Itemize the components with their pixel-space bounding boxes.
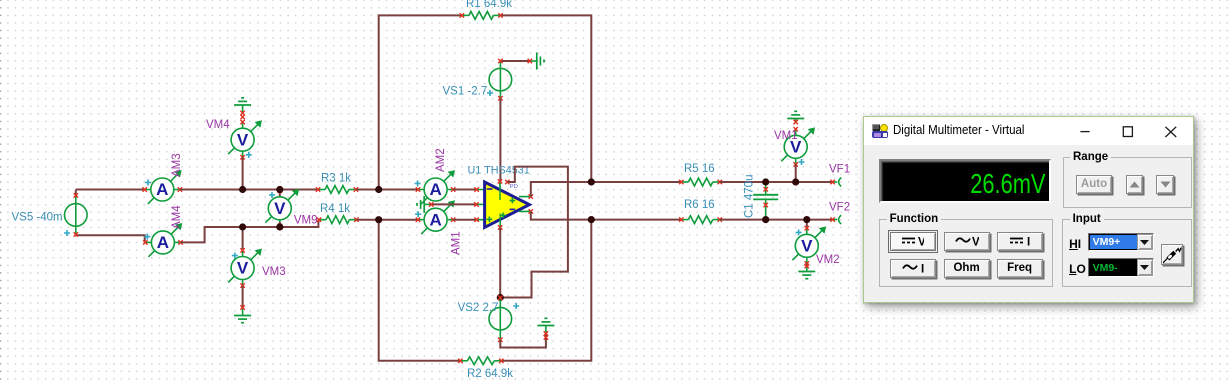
junction R1 loop / upper rail (375, 186, 382, 193)
voltmeter VM3 (228, 248, 262, 288)
svg-text:V: V (237, 259, 249, 278)
label R3 1k (321, 173, 351, 185)
resistor R6 (679, 216, 722, 224)
svg-text:V: V (801, 236, 813, 255)
wire VM9 bottom to lower rail (279, 222, 281, 227)
ground below VM3 (234, 305, 251, 322)
Function group (879, 219, 1053, 287)
junction VM9 top (276, 186, 283, 193)
ammeter AM1 (415, 200, 455, 234)
junction VS2 top node (497, 294, 504, 301)
label AM4 (171, 205, 183, 229)
resistor R2 (458, 357, 503, 365)
svg-text:PD: PD (510, 184, 518, 190)
wire AM3 to R3 upper rail (180, 189, 318, 191)
svg-text:VM9: VM9 (294, 215, 318, 227)
label VF2 (829, 202, 850, 214)
junction VM9 bottom (276, 223, 283, 230)
svg-text:VF1: VF1 (829, 164, 850, 176)
svg-text:R4 1k: R4 1k (320, 203, 350, 215)
svg-text:AM1: AM1 (451, 231, 463, 255)
label R5 16 (684, 163, 715, 175)
output pin VF1 (830, 178, 841, 187)
wire R4 to AM1 (356, 219, 418, 221)
junction VM2 (803, 216, 810, 223)
wire R5 to VF1 (720, 181, 833, 183)
wire top-loop right (R1 to out+) (501, 15, 592, 182)
svg-text:VS5 -40m: VS5 -40m (12, 212, 63, 224)
svg-text:VF2: VF2 (829, 202, 850, 214)
voltmeter VM4 (228, 120, 262, 160)
titlebar buttons (1067, 117, 1177, 145)
svg-text:R2 64.9k: R2 64.9k (467, 368, 513, 380)
label VS1 -2.7 (443, 86, 488, 98)
wire op-amp V- to VS2 (499, 228, 501, 298)
svg-text:A: A (156, 180, 168, 199)
voltmeter VM2 (792, 226, 826, 266)
svg-text:VM2: VM2 (816, 254, 840, 266)
label R1 64.9k (466, 0, 512, 10)
svg-text:V: V (972, 237, 979, 248)
wire VS1 to ground (500, 60, 529, 62)
pin label PD (510, 184, 518, 190)
junction VM3 top (239, 223, 246, 230)
wire VS5 top stub (75, 190, 77, 196)
plus marker VS5 (64, 230, 70, 236)
wire bottom-loop right (R2 to out-) (501, 220, 591, 361)
op-amp U1 THS4531 (474, 179, 533, 230)
svg-text:V: V (237, 130, 249, 149)
svg-text:V: V (274, 199, 286, 218)
ground above VM4 (234, 98, 251, 119)
wire PD pin to VS2 node (500, 167, 568, 298)
wire VM4 to upper rail (242, 157, 244, 189)
wire VS2 to ground (500, 334, 546, 348)
label C1 470u (744, 175, 756, 218)
label AM3 (171, 153, 183, 177)
junction VM4/upper rail (239, 186, 246, 193)
wire out- to R6 (531, 211, 682, 219)
wire VOCM to ground (431, 203, 476, 205)
resistor R1 (460, 11, 503, 19)
voltage source VS2 (489, 296, 512, 342)
label R6 16 (684, 199, 715, 211)
junction out+ / R1 loop (588, 178, 595, 185)
ground above VM1 (787, 111, 804, 124)
svg-text:R6 16: R6 16 (684, 199, 715, 211)
wire VM9 top to upper rail (279, 190, 281, 197)
label AM1 (451, 231, 463, 255)
svg-text:VM1: VM1 (774, 130, 798, 142)
svg-text:A: A (157, 233, 169, 252)
Digital Multimeter window (863, 116, 1194, 303)
ammeter AM2 (415, 170, 456, 204)
ground VOCM (left of op-amp) (417, 196, 433, 213)
wire R6 to VF2 (720, 219, 833, 221)
svg-text:VM3: VM3 (262, 266, 286, 278)
svg-text:VM4: VM4 (206, 119, 230, 131)
Range group (1063, 157, 1192, 208)
svg-text:A: A (429, 210, 441, 229)
wire top-loop left (R1 feedback) (379, 15, 462, 189)
svg-text:AM4: AM4 (171, 205, 183, 229)
wire out+ to R5 (531, 182, 682, 197)
label R4 1k (320, 203, 350, 215)
svg-text:R3 1k: R3 1k (321, 173, 351, 185)
junction C1 top (762, 178, 769, 185)
label VM3 (262, 266, 286, 278)
svg-text:VS1 -2.7: VS1 -2.7 (443, 86, 488, 98)
label VM4 (206, 119, 230, 131)
label VM9 (294, 215, 318, 227)
svg-text:A: A (429, 180, 441, 199)
window icon (872, 124, 888, 138)
junction out- / R2 loop (588, 216, 595, 223)
wire VM2 to ground (806, 263, 808, 266)
svg-text:VS2 2.7: VS2 2.7 (458, 302, 499, 314)
svg-text:V: V (918, 237, 924, 248)
svg-text:I: I (921, 264, 924, 275)
output pin VF2 (830, 215, 841, 224)
ground below VM2 (798, 264, 815, 279)
voltage source VS5 (65, 193, 88, 236)
junction C1 bottom (762, 216, 769, 223)
svg-text:R5 16: R5 16 (684, 163, 715, 175)
svg-text:I: I (1027, 237, 1030, 248)
label VM2 (816, 254, 840, 266)
junction R2 loop / lower rail (375, 216, 382, 223)
ammeter AM4 (143, 223, 183, 257)
wire R3 to AM2 (356, 189, 418, 191)
wire AM1 to op-amp IN+ (453, 219, 476, 221)
resistor R4 (317, 216, 359, 224)
ammeter AM3 (143, 170, 183, 204)
voltmeter VM1 (781, 127, 815, 167)
capacitor C1 470u (753, 182, 778, 218)
resistor R5 (679, 178, 722, 186)
LCD display (879, 159, 1051, 203)
wire VS5 to AM4 (76, 235, 145, 243)
label U1 THS4531 (468, 165, 530, 177)
svg-text:AM3: AM3 (171, 153, 183, 177)
wire VS5 to AM3 (76, 189, 145, 191)
junction VM1 (792, 178, 799, 185)
ground right of VS2 (537, 318, 554, 339)
svg-text:AM2: AM2 (435, 148, 447, 172)
wire VM3 to ground (242, 286, 244, 308)
voltmeter VM9 (265, 189, 299, 229)
wire lower rail to VM3 (242, 227, 244, 249)
wire VS1 to op-amp V+ pin (499, 98, 501, 181)
svg-text:R1 64.9k: R1 64.9k (466, 0, 512, 10)
voltage source VS1 (489, 59, 512, 101)
plus marker VS2 (513, 303, 519, 309)
probe button (1161, 244, 1183, 265)
label R2 64.9k (467, 368, 513, 380)
wire VM1 to out+ rail (795, 164, 797, 182)
wire bottom-loop left (R2 feedback) (379, 220, 461, 361)
plus marker VS1 (487, 90, 493, 96)
wire out- rail to VM2 (806, 220, 808, 229)
label VS5 -40m (12, 212, 63, 224)
svg-text:C1 470u: C1 470u (744, 175, 756, 218)
label VS2 2.7 (458, 302, 499, 314)
label AM2 (435, 148, 447, 172)
label VF1 (829, 164, 850, 176)
wire AM4 to R4 lower rail (181, 220, 319, 243)
resistor R3 (316, 186, 358, 194)
label VM1 (774, 130, 798, 142)
Input group (1062, 219, 1192, 287)
wire AM2 to op-amp IN- (453, 189, 476, 191)
ground right of VS1 (528, 53, 544, 70)
